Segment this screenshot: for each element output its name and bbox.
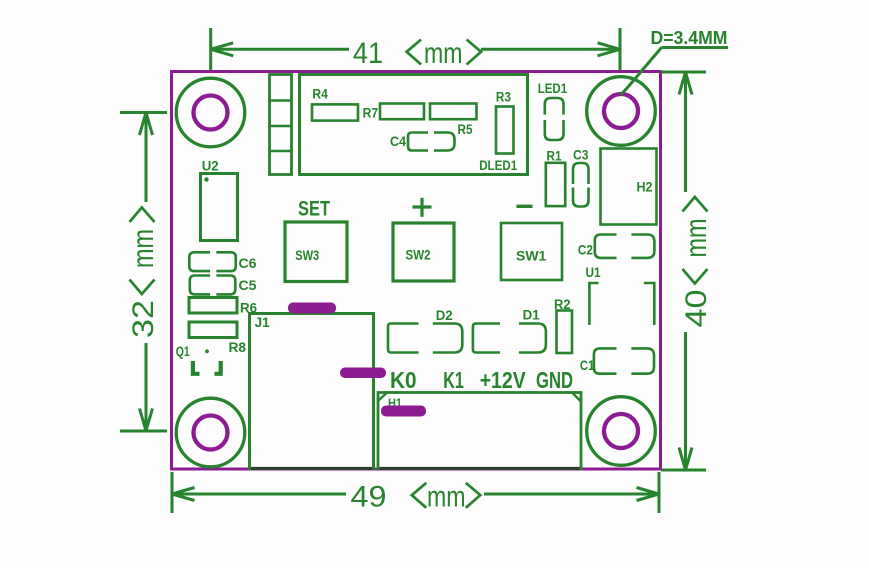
svg-text:mm: mm: [680, 219, 713, 258]
svg-text:40: 40: [680, 290, 713, 328]
svg-text:41: 41: [353, 37, 383, 70]
svg-text:R1: R1: [547, 149, 562, 164]
svg-text:R3: R3: [496, 90, 511, 105]
svg-text:C5: C5: [239, 278, 258, 293]
svg-text:C6: C6: [239, 256, 258, 271]
svg-text:C3: C3: [573, 148, 589, 163]
svg-text:C2: C2: [578, 243, 593, 258]
svg-text:32: 32: [127, 300, 160, 338]
svg-text:DLED1: DLED1: [479, 158, 517, 173]
svg-text:R8: R8: [229, 340, 247, 355]
svg-text:mm: mm: [127, 229, 160, 268]
svg-text:GND: GND: [536, 367, 573, 393]
svg-text:D2: D2: [436, 308, 453, 323]
svg-text:SW3: SW3: [295, 248, 319, 263]
svg-text:Q1: Q1: [176, 344, 190, 359]
svg-text:D1: D1: [523, 308, 540, 323]
svg-text:C1: C1: [580, 358, 595, 373]
svg-text:+12V: +12V: [480, 367, 527, 393]
svg-text:mm: mm: [427, 481, 466, 514]
svg-text:H2: H2: [637, 180, 653, 195]
svg-text:mm: mm: [424, 37, 463, 70]
svg-text:U1: U1: [586, 265, 601, 280]
svg-text:K0: K0: [390, 367, 417, 393]
svg-text:SW1: SW1: [516, 248, 547, 264]
svg-text:C4: C4: [390, 134, 406, 149]
svg-text:R7: R7: [363, 106, 379, 121]
svg-text:LED1: LED1: [538, 81, 568, 96]
svg-text:R4: R4: [312, 86, 328, 101]
svg-text:SET: SET: [298, 196, 330, 220]
svg-text:R5: R5: [458, 122, 473, 137]
svg-text:U2: U2: [202, 159, 219, 174]
svg-text:K1: K1: [443, 367, 464, 393]
svg-text:SW2: SW2: [406, 248, 431, 263]
svg-text:D=3.4MM: D=3.4MM: [651, 28, 728, 48]
svg-text:49: 49: [351, 481, 387, 514]
svg-text:J1: J1: [255, 315, 270, 330]
